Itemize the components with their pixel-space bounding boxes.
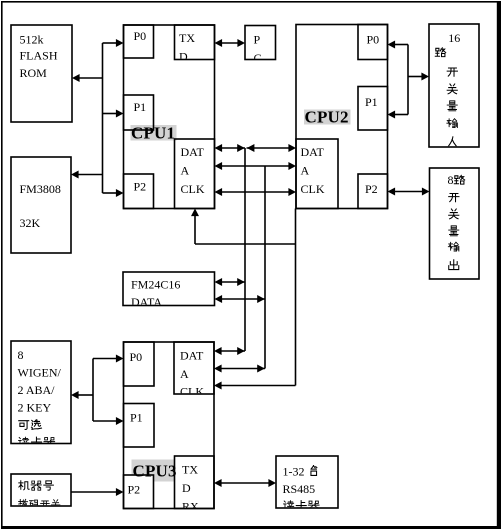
CPU3 port P1	[124, 404, 155, 448]
wire bus row1 node vline1 to CPU2 DATA	[247, 147, 291, 149]
wire vline3 into CPU3 DATA right	[221, 385, 296, 387]
svg-text:P2: P2	[365, 182, 378, 196]
CPU2 U2 outline	[296, 25, 388, 209]
svg-text:P0: P0	[130, 350, 143, 364]
wire bus to 512k FLASH ROM	[79, 77, 103, 79]
wire bracket to CPU2 P1	[394, 114, 408, 116]
wire bus to CPU1 P0	[103, 42, 118, 44]
svg-text:A: A	[181, 164, 190, 178]
border frame bottom	[1, 526, 500, 529]
CPU3 port P2	[124, 475, 154, 509]
16-channel switch input box	[429, 24, 479, 147]
memory box FM3808 32K	[11, 157, 71, 253]
label machine number DIP switch	[19, 481, 60, 508]
svg-text:CPU3: CPU3	[133, 462, 177, 481]
wire bus row3 CPU1 to CPU2, bidirectional	[221, 191, 290, 193]
CPU3 DATA/CLK box	[174, 342, 214, 394]
CPU2 port P0	[358, 25, 388, 60]
svg-text:TX: TX	[182, 463, 198, 477]
highlight behind CPU2 label	[304, 110, 351, 125]
CPU1 port P0	[124, 25, 154, 58]
label PC	[254, 33, 262, 66]
RS485 reader box 1-32	[276, 456, 338, 508]
border frame left	[1, 1, 3, 528]
wire bracket to CPU2 P0	[394, 44, 408, 46]
svg-text:P0: P0	[134, 29, 147, 43]
wire CPU2 right bracket vertical	[407, 45, 409, 115]
CPU3 TXD/RXD box	[175, 456, 215, 509]
wire bus to FM3808	[78, 174, 103, 176]
CPU3 U3 outline	[124, 342, 215, 509]
svg-text:TX: TX	[179, 31, 195, 45]
svg-text:P: P	[254, 33, 261, 47]
svg-text:DAT: DAT	[301, 145, 325, 159]
wire bracket to 16-ch input box	[408, 76, 423, 78]
label FM24C16 DATA	[131, 278, 180, 310]
CPU1 U1 outline	[124, 25, 215, 209]
CPU3 port P0	[124, 342, 155, 386]
svg-text:P0: P0	[367, 33, 380, 47]
border frame top	[1, 1, 498, 3]
wire DIP switch box to CPU3 P2	[71, 491, 117, 493]
wire CPU3 DATA row1 to vline1, bidirectional	[221, 350, 246, 352]
svg-text:P2: P2	[134, 180, 147, 194]
reader box 8 WIGEN/2 ABA/2 KEY	[11, 341, 71, 444]
svg-text:2 KEY: 2 KEY	[18, 401, 52, 415]
svg-text:P1: P1	[130, 411, 143, 425]
svg-text:WIGEN/: WIGEN/	[18, 366, 62, 380]
svg-text:CPU2: CPU2	[305, 108, 349, 127]
label CPU3 DATA CLK	[180, 349, 204, 399]
CPU1 TXD/RXD box	[175, 25, 215, 60]
svg-text:FLASH: FLASH	[20, 49, 58, 63]
svg-text:512k: 512k	[20, 33, 44, 47]
wire reader bracket vertical	[92, 359, 94, 422]
wire bus to CPU1 P1	[103, 113, 118, 115]
svg-text:P1: P1	[365, 95, 378, 109]
8-channel switch output box	[430, 168, 480, 279]
svg-text:2 ABA/: 2 ABA/	[18, 383, 56, 397]
wire FM24C16 to vline2, bidirectional	[221, 298, 265, 300]
highlight behind CPU3 label	[132, 460, 175, 476]
machine-number DIP switch box	[11, 474, 71, 506]
svg-text:RS485: RS485	[283, 482, 316, 496]
wire CPU3 DATA row2 to vline2, bidirectional	[221, 368, 266, 370]
svg-text:P2: P2	[128, 483, 141, 497]
wire left address/data bus vertical	[102, 43, 104, 193]
PC box	[245, 26, 276, 60]
wire horizontal branch to CPU1 DATA bottom	[195, 243, 296, 245]
svg-text:CLK: CLK	[301, 182, 325, 196]
memory box FM24C16 DATA	[123, 272, 215, 306]
svg-text:FM24C16: FM24C16	[131, 278, 180, 292]
svg-text:A: A	[301, 164, 310, 178]
wire CPU3 TXD to RS485 readers, bidirectional	[221, 482, 270, 484]
memory box 512k FLASH ROM	[11, 25, 72, 122]
wire bracket to WIGEN reader box	[78, 394, 93, 396]
svg-text:ROM: ROM	[20, 66, 48, 80]
wire vertical arrow into CPU1 DATA bottom	[194, 215, 196, 244]
wire vertical from CPU2 bottom (vline3)	[295, 209, 297, 386]
highlight behind CPU1 label	[131, 125, 177, 141]
svg-text:16: 16	[448, 31, 460, 45]
svg-text:CLK: CLK	[181, 182, 205, 196]
wire bracket to CPU3 P0	[93, 358, 117, 360]
label 1-32 RS485 readers	[283, 465, 320, 511]
CPU2 port P1	[358, 87, 388, 131]
svg-text:32K: 32K	[20, 216, 41, 230]
wire CPU2 P2 to 8-ch output box, bidirectional	[394, 191, 424, 193]
wire bus row1 CPU1 DATA to node vline1	[221, 147, 245, 149]
svg-text:DAT: DAT	[180, 349, 204, 363]
wire FM24C16 to vline1, bidirectional	[221, 281, 245, 283]
wire bus row2 CPU1 to CPU2, bidirectional	[221, 165, 290, 167]
svg-text:DAT: DAT	[181, 145, 205, 159]
svg-text:FM3808: FM3808	[20, 182, 61, 196]
svg-text:D: D	[182, 481, 191, 495]
CPU1 port P1	[124, 95, 154, 130]
CPU2 DATA/CLK box	[296, 139, 338, 209]
CPU1 DATA/CLK box	[175, 139, 215, 209]
wire CPU1 TXD to PC, bidirectional	[221, 42, 239, 44]
CPU2 port P2	[358, 174, 388, 209]
label CPU3 TXD RXD	[182, 463, 199, 514]
wire vertical bus node vline2	[264, 166, 266, 369]
border frame right	[497, 1, 501, 529]
svg-text:A: A	[180, 367, 189, 381]
wire vertical bus node vline1	[244, 148, 246, 351]
wire bus to CPU1 P2	[103, 192, 118, 194]
svg-text:8: 8	[448, 173, 454, 187]
CPU1 port P2	[124, 174, 154, 209]
svg-text:P1: P1	[134, 100, 147, 114]
wire bracket to CPU3 P1	[93, 420, 117, 422]
svg-text:8: 8	[18, 348, 24, 362]
svg-text:1-32: 1-32	[283, 465, 305, 479]
svg-text:CPU1: CPU1	[131, 124, 175, 143]
label CPU1 TXD RXD	[179, 31, 196, 82]
